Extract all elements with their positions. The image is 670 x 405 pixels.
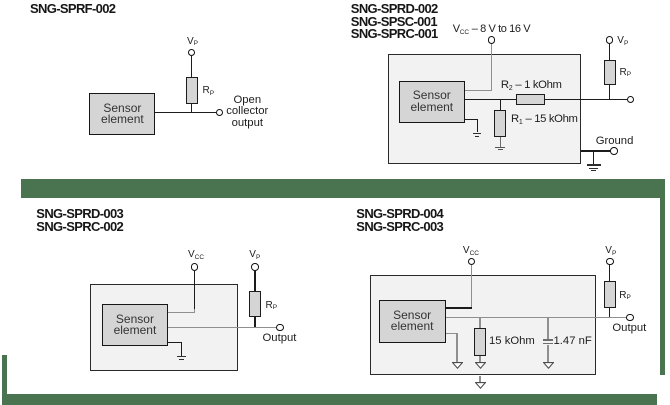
resistor RP [186,77,199,104]
wire VP to RP [254,271,255,292]
wire sensor to ground arm [446,333,457,334]
ground arrow below 15 kOhm [475,362,486,369]
ground arrow below sensor element [452,362,463,369]
wire VCC stem [491,44,492,91]
label 15 kOhm [489,336,535,348]
terminal VCC [488,36,496,44]
node VP label [187,36,198,47]
outer box [370,275,597,376]
sensor element U4 [379,300,446,342]
label RP [266,300,278,311]
resistor RP [249,291,261,317]
wire R2 to output [545,99,627,100]
sensor element U1 [89,93,155,135]
wire VCC elbow [446,307,473,308]
wire junction to R1 [500,100,501,110]
resistor RP [604,60,616,85]
wire box bottom to arrow [479,376,480,382]
wire output line [446,317,627,318]
sensor element U3 [102,304,169,346]
node VCC label = 8 V to 16 V [453,23,530,35]
ground earth symbol [587,164,601,165]
ground arrow below box [475,382,486,389]
label R1 = 15 kOhm [511,114,578,127]
title SNG-SPRD-003 / SNG-SPRC-002 [36,208,123,233]
node VCC label [463,245,479,256]
label 1.47 nF [554,336,592,348]
label RP [619,290,631,301]
resistor R1 [494,110,506,137]
label RP [203,85,215,96]
wire 15 kOhm to arrow [479,356,480,362]
terminal VCC [468,258,476,266]
wire VCC elbow gray [194,309,195,313]
ground below R1 [495,147,505,148]
wire RP to output line [609,308,610,317]
label open collector output [207,95,287,130]
wire RP to output line [191,104,192,113]
wire capacitor to arrow [547,345,548,363]
resistor R2 [516,94,545,105]
label R2 = 1 kOhm [501,80,562,93]
node VP label [605,245,616,256]
ground below sensor element [473,133,481,134]
wire VCC elbow [465,90,492,91]
resistor 15 kOhm [474,328,486,356]
wire output line [168,327,276,328]
wire R1 to ground [500,137,501,147]
terminal VP [251,263,259,271]
terminal output [276,324,284,332]
wire sensor to ground arm [465,119,478,120]
wire RP to output line [609,85,610,99]
node VP label [617,35,628,46]
sensor element U2 [399,81,465,123]
wire RP to output line [254,317,255,327]
label RP [620,67,632,78]
wire sensor to R2 [465,99,516,100]
terminal output [626,314,634,322]
terminal VP [188,49,196,57]
outer box [90,284,239,372]
wire junction to capacitor [547,318,548,339]
title SNG-SPRD-002 / SNG-SPSC-001 / SNG-SPRC-001 [351,3,438,41]
label Ground [596,136,634,148]
terminal VP [606,258,614,266]
wire VP to RP [609,44,610,60]
ground below sensor element [177,356,186,357]
node VCC label [188,249,204,260]
terminal Ground [610,147,618,155]
wire output line [155,112,216,113]
outer box [388,54,581,164]
wire VCC stem [194,271,195,309]
wire sensor to ground arm [168,342,182,343]
terminal VP [606,36,614,44]
wire junction to 15 kOhm resistor [479,318,480,328]
wire VP to RP [609,265,610,281]
wire VCC stem gray [471,265,472,308]
title SNG-SPRF-002 [30,3,115,16]
wire ground [581,150,611,151]
wire VP to RP [191,56,192,77]
label Output [263,333,297,345]
capacitor C1 plates [543,339,553,340]
ground arrow below capacitor [543,362,554,369]
terminal output [627,96,635,104]
title SNG-SPRD-004 / SNG-SPRC-003 [356,208,443,233]
node VP label [249,249,260,260]
label Output [612,323,646,335]
terminal VCC [191,263,199,271]
terminal open collector output [216,109,224,117]
resistor RP [604,281,616,308]
